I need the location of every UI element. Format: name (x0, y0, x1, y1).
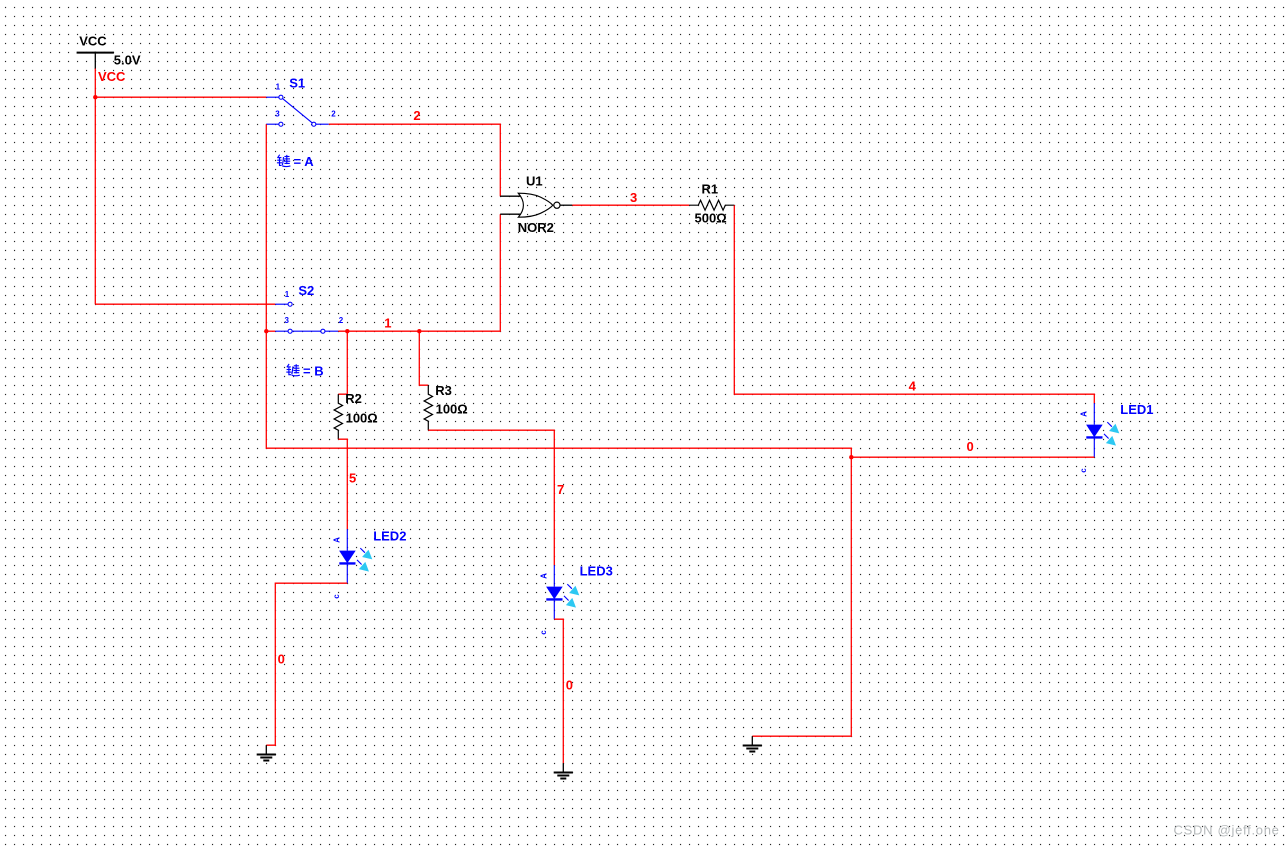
ground left (257, 745, 276, 760)
svg-text:U1: U1 (526, 174, 543, 189)
svg-text:1: 1 (285, 290, 290, 299)
wire net 0 : junction down to middle ground (752, 457, 851, 736)
svg-text:4: 4 (909, 379, 917, 394)
wire net1 branch to R3 top (419, 331, 428, 385)
net number 1 (384, 315, 391, 330)
net number 2 (413, 108, 420, 123)
wire from S1 pin3 down to S2 pin3 junction (265, 124, 267, 331)
junction S1.3/S2.3 net (264, 329, 268, 333)
wire net 7 : R3 bottom to LED3 anode (428, 430, 554, 565)
svg-text:3: 3 (285, 316, 290, 325)
net number 0 (right ground wire) (566, 677, 573, 692)
watermark (1174, 823, 1280, 838)
resistor R1 500Ω (689, 181, 734, 225)
wire net 1 : S2 pin2 to U1 input B (338, 214, 500, 331)
LED3 emission arrow 1 (567, 584, 579, 595)
net number 5 (349, 470, 356, 485)
svg-text:LED1: LED1 (1120, 402, 1153, 417)
wire net 0 : LED3 cathode to right ground (554, 619, 563, 763)
junction net1 / R2 branch (345, 329, 349, 333)
svg-text:100Ω: 100Ω (436, 402, 468, 417)
resistor R2 100Ω (334, 391, 378, 439)
svg-text:LED3: LED3 (580, 564, 613, 579)
switch S2 (275, 283, 344, 333)
label 键 = B for S2 (286, 364, 323, 379)
svg-text:5.0V: 5.0V (114, 52, 141, 67)
net number 7 (557, 482, 564, 497)
svg-text:c: c (539, 630, 548, 635)
svg-text:2: 2 (331, 109, 336, 118)
svg-text:2: 2 (339, 316, 344, 325)
label 键 = A for S1 (277, 154, 314, 169)
LED2 emission arrow 1 (360, 548, 372, 559)
svg-text:A: A (540, 573, 549, 579)
svg-text:= B: = B (303, 364, 324, 379)
svg-text:0: 0 (967, 439, 974, 454)
svg-text:A: A (1080, 411, 1089, 417)
svg-text:S1: S1 (289, 76, 305, 91)
svg-text:1: 1 (276, 83, 281, 92)
wire net 0 : LED1 cathode to junction (851, 456, 1094, 458)
svg-text:500Ω: 500Ω (695, 211, 727, 226)
junction net0 right (849, 455, 853, 459)
svg-text:1: 1 (384, 315, 391, 330)
svg-text:100Ω: 100Ω (346, 411, 378, 426)
op-amp U1 NOR2 gate (500, 174, 572, 235)
LED3 emission arrow 2 (564, 596, 576, 608)
net number 0 (left ground wire) (278, 651, 285, 666)
svg-text:R3: R3 (435, 383, 452, 398)
net label VCC (98, 69, 126, 84)
svg-text:0: 0 (278, 651, 285, 666)
svg-text:VCC: VCC (79, 33, 107, 48)
svg-text:= A: = A (294, 154, 315, 169)
wire net 3 : U1 output to R1 (572, 204, 689, 206)
LED2 (332, 528, 406, 598)
wire stub to S2 pin3 (266, 330, 275, 332)
svg-text:CSDN @jeff.one: CSDN @jeff.one (1174, 823, 1280, 838)
LED1 emission arrow 2 (1104, 434, 1116, 446)
svg-text:7: 7 (557, 482, 564, 497)
svg-text:R2: R2 (345, 391, 362, 406)
svg-text:c: c (332, 594, 341, 599)
wire VCC vertical from source down to S2 row (94, 69, 96, 305)
svg-text:2: 2 (413, 108, 420, 123)
LED2 emission arrow 2 (357, 560, 369, 572)
switch S1 (266, 76, 336, 127)
wire net 0 main : switches pin3 column down and across to junction (266, 331, 851, 457)
LED3 (539, 564, 613, 635)
resistor R3 100Ω (424, 383, 468, 430)
svg-text:3: 3 (630, 190, 637, 205)
svg-text:R1: R1 (702, 181, 719, 196)
net number 0 (right horizontal run) (967, 439, 974, 454)
wire net 4 : R1 to LED1 anode (734, 205, 1094, 403)
ground right (554, 763, 573, 778)
svg-text:LED2: LED2 (373, 528, 406, 543)
svg-text:S2: S2 (298, 283, 314, 298)
svg-text:5: 5 (349, 470, 356, 485)
power symbol VCC (77, 33, 141, 69)
junction net1 / R3 branch (417, 329, 421, 333)
LED1 emission arrow 1 (1107, 422, 1119, 433)
wire net 2 : S1 pin2 to U1 input A (329, 124, 501, 196)
VCC symbol stem (94, 52, 96, 69)
VCC symbol bar (77, 52, 114, 54)
svg-text:0: 0 (566, 677, 573, 692)
svg-text:c: c (1079, 468, 1088, 473)
ground middle (743, 736, 762, 751)
junction VCC / S1 branch (93, 95, 97, 99)
svg-text:3: 3 (275, 109, 280, 118)
wire VCC to S1 pin1 (95, 96, 266, 98)
svg-text:VCC: VCC (98, 69, 126, 84)
LED1 (1079, 402, 1153, 473)
net number 3 (630, 190, 637, 205)
wire VCC to S2 pin1 (95, 303, 275, 305)
wire net1 branch to R2 top (338, 331, 347, 394)
wire net 0 : LED2 cathode to left ground (266, 583, 347, 745)
net number 4 (909, 379, 917, 394)
svg-text:NOR2: NOR2 (518, 220, 554, 235)
svg-text:A: A (333, 537, 342, 543)
wire net 5 : R2 bottom to LED2 anode (338, 439, 347, 529)
